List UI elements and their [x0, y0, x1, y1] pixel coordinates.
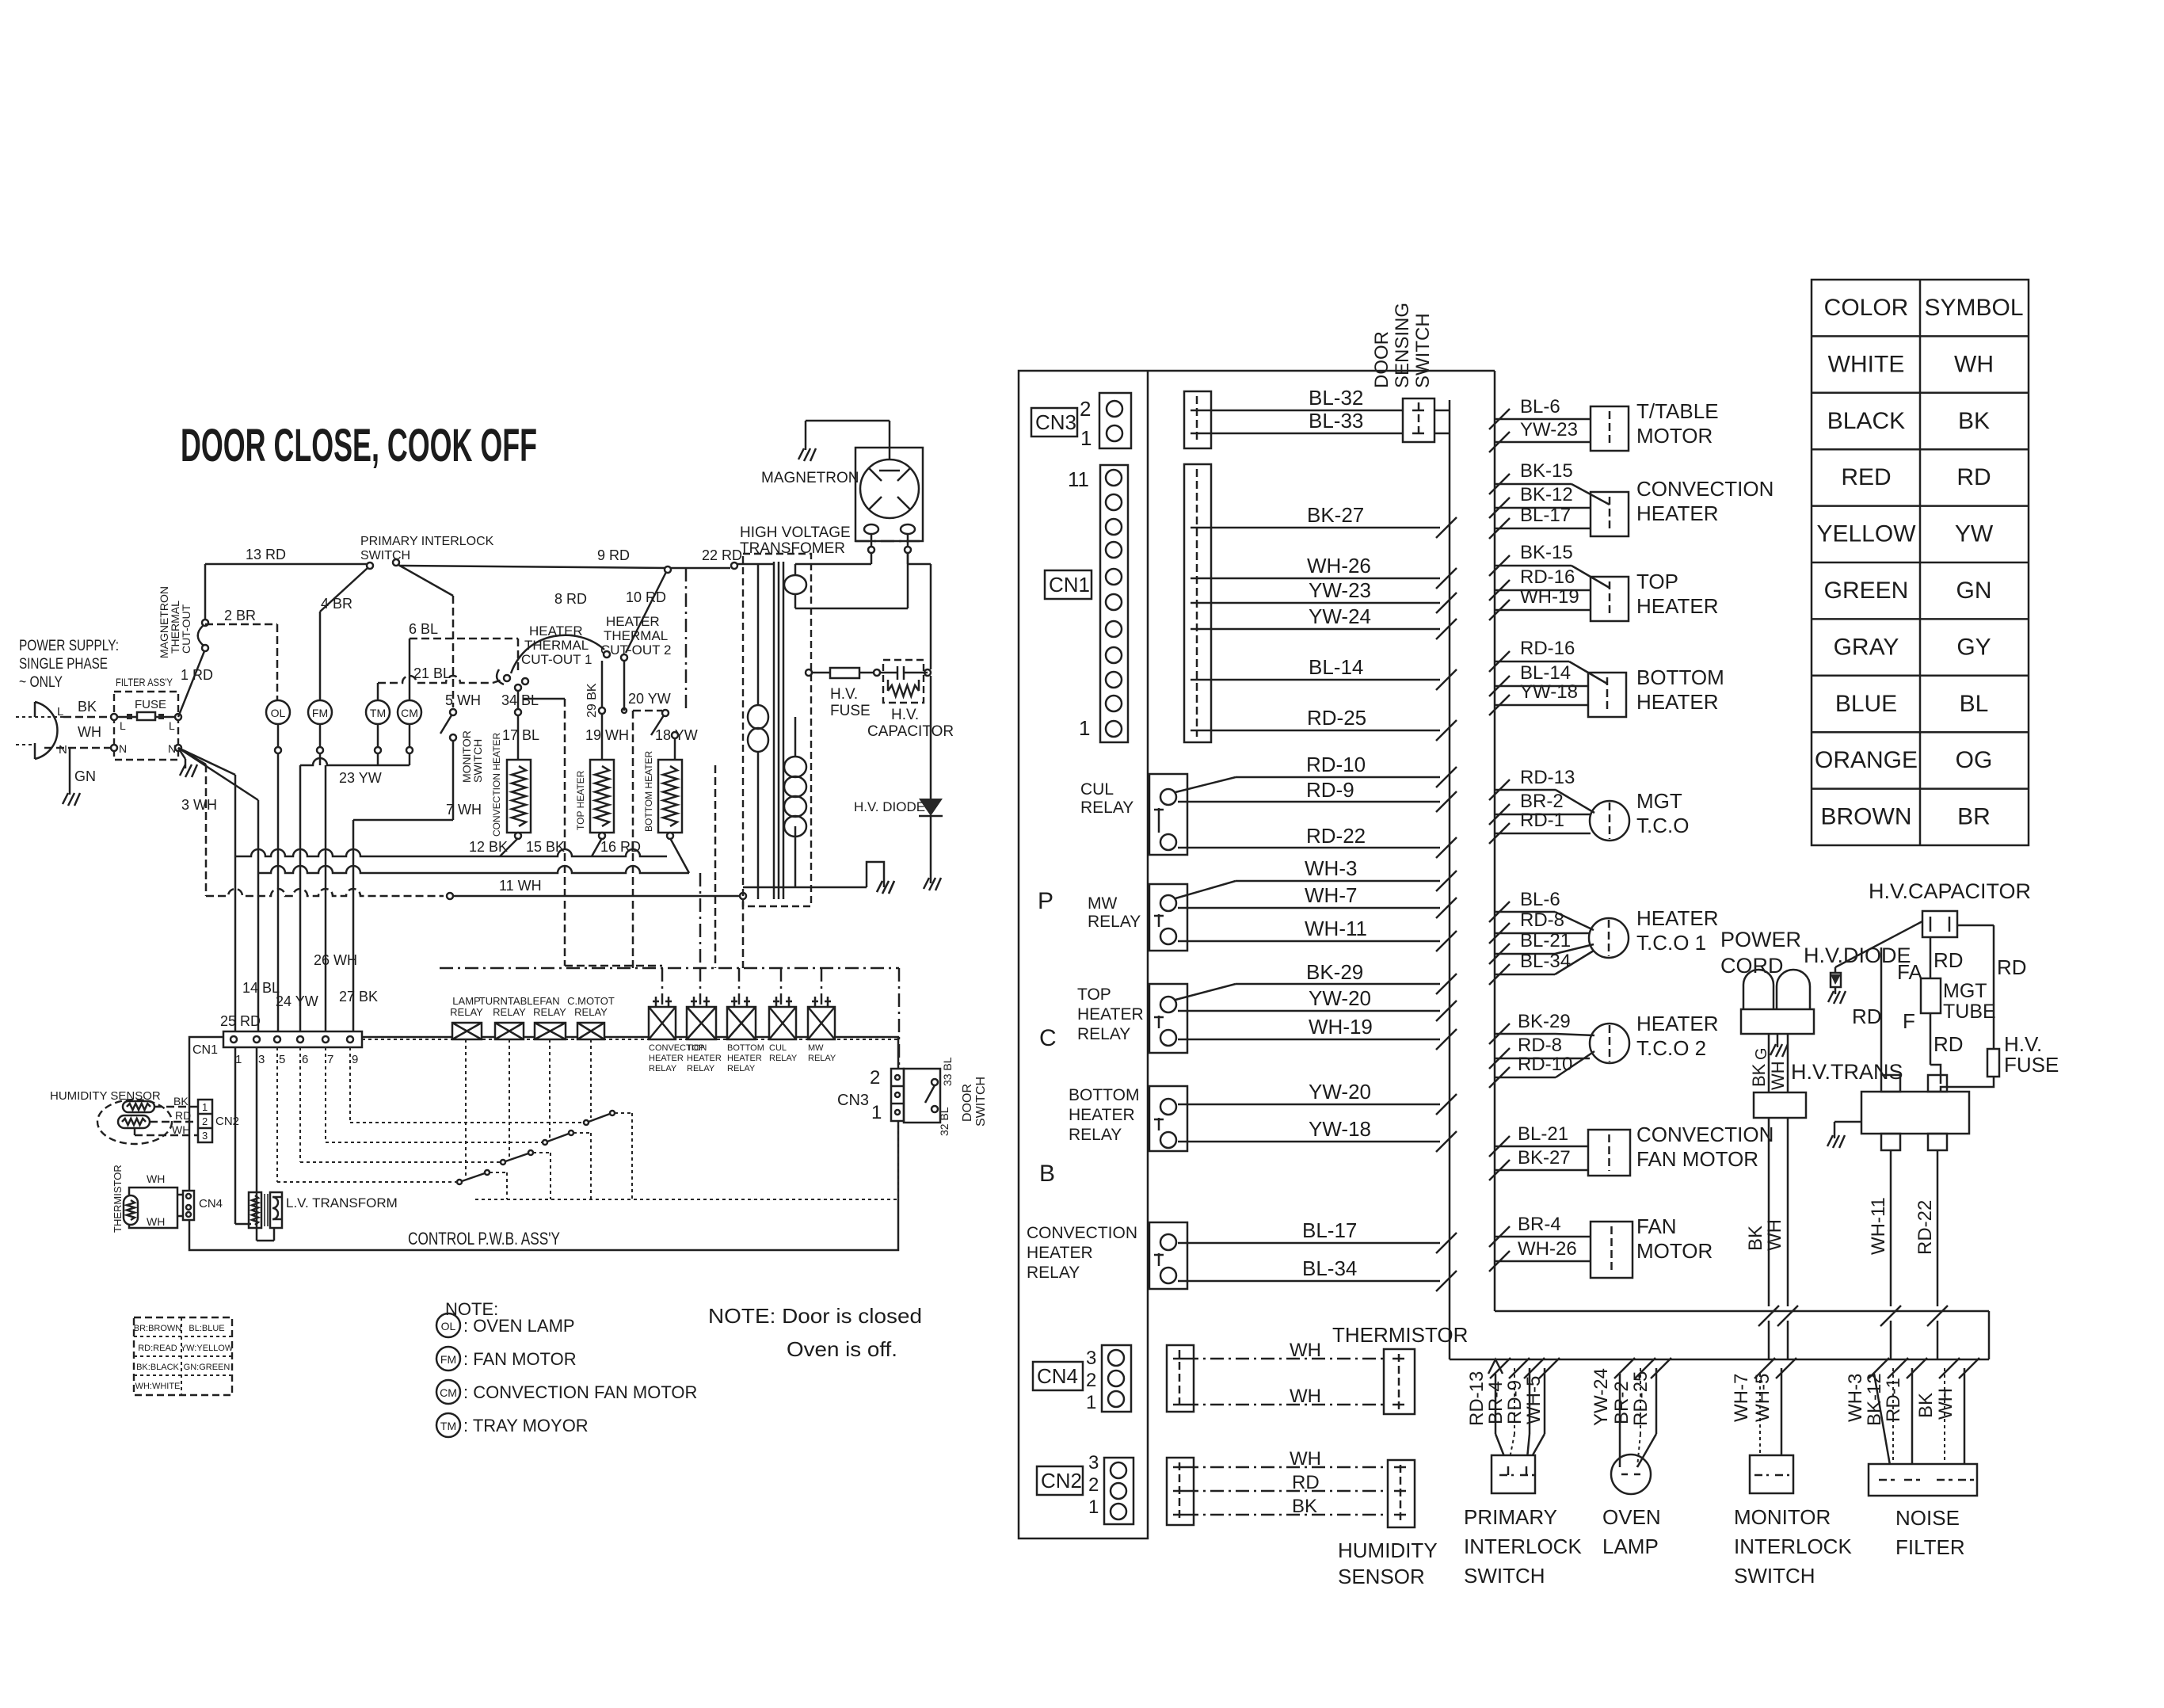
- svg-text:THERMAL: THERMAL: [604, 628, 668, 643]
- svg-text:CN3: CN3: [1035, 410, 1076, 434]
- svg-text:BK: BK: [173, 1095, 189, 1108]
- wire RD-13: [1489, 780, 1510, 800]
- svg-text:T.C.O 2: T.C.O 2: [1636, 1036, 1706, 1060]
- wire BK-27 b: [1489, 1160, 1510, 1180]
- svg-text:RD: RD: [1934, 948, 1964, 972]
- connector CN2 right: [1037, 1466, 1083, 1495]
- svg-text:H.V.: H.V.: [830, 686, 858, 703]
- wire RD-10: [1175, 777, 1236, 792]
- svg-text:RELAY: RELAY: [1088, 913, 1141, 931]
- svg-text:: OVEN LAMP: : OVEN LAMP: [463, 1316, 575, 1336]
- wire 6 BL: [409, 639, 411, 700]
- wire 7 WH: [452, 741, 455, 820]
- svg-text:BR-4: BR-4: [1518, 1214, 1561, 1235]
- wire BR-2: [1489, 804, 1510, 825]
- svg-text:SENSING: SENSING: [1392, 303, 1413, 388]
- svg-text:1: 1: [1086, 1392, 1096, 1413]
- svg-text:RELAY: RELAY: [533, 1006, 566, 1018]
- svg-text:RD-8: RD-8: [1518, 1035, 1562, 1056]
- wire BL-17: [1178, 1242, 1440, 1245]
- harness connector top: [1184, 391, 1211, 448]
- wire 5 WH: [452, 596, 455, 707]
- dash-dot drop x866: [685, 568, 688, 709]
- wire WH h: [1185, 1466, 1388, 1469]
- bottom heater R3: [658, 760, 682, 833]
- svg-text:~ ONLY: ~ ONLY: [19, 674, 63, 691]
- svg-text:CN1: CN1: [192, 1043, 218, 1057]
- svg-text:WH: WH: [1935, 1388, 1956, 1420]
- svg-text:3: 3: [202, 1130, 208, 1142]
- svg-text:WH: WH: [1764, 1219, 1785, 1251]
- primary interlock switch right: [1490, 1358, 1511, 1378]
- svg-text:BR:BROWN: BR:BROWN: [134, 1324, 182, 1333]
- convection fan motor comp: [1588, 1130, 1630, 1176]
- svg-text:WH-5: WH-5: [1523, 1376, 1545, 1424]
- fan motor FM: [308, 700, 332, 724]
- svg-text:YW:YELLOW: YW:YELLOW: [181, 1344, 234, 1353]
- crossover row 2: [258, 866, 689, 873]
- svg-text:1: 1: [202, 1101, 208, 1113]
- svg-text:YW-18: YW-18: [1520, 681, 1578, 703]
- humidity wires BK RD WH: [154, 1106, 198, 1108]
- svg-text:RD-10: RD-10: [1306, 753, 1366, 776]
- svg-text:FM: FM: [312, 707, 328, 719]
- branch to top heater: [592, 838, 602, 856]
- svg-text:9 RD: 9 RD: [597, 547, 630, 563]
- svg-text:RD-1: RD-1: [1520, 810, 1564, 831]
- svg-text:SWITCH: SWITCH: [471, 739, 484, 783]
- wire YW-20 b: [1178, 1104, 1440, 1106]
- wire RD-8: [1489, 923, 1510, 944]
- svg-text:BLUE: BLUE: [1835, 691, 1897, 717]
- connector CN3 right: [1031, 408, 1077, 437]
- svg-text:FILTER ASS'Y: FILTER ASS'Y: [116, 676, 173, 688]
- svg-text:WH-11: WH-11: [1305, 917, 1367, 940]
- svg-text:GRAY: GRAY: [1834, 634, 1899, 660]
- connector CN1 strip: [223, 1031, 362, 1047]
- svg-text:HEATER: HEATER: [727, 1054, 762, 1063]
- oven lamp right: [1614, 1358, 1635, 1378]
- svg-text:6 BL: 6 BL: [409, 621, 438, 637]
- svg-text:YW-24: YW-24: [1309, 604, 1371, 628]
- svg-text:RED: RED: [1841, 464, 1891, 490]
- svg-text:H.V.TRANS: H.V.TRANS: [1791, 1060, 1903, 1084]
- magnetron filament wires: [871, 553, 873, 564]
- filter ground: [178, 748, 185, 759]
- svg-text:BOTTOM HEATER: BOTTOM HEATER: [643, 750, 654, 832]
- svg-text:WH-3: WH-3: [1305, 856, 1357, 880]
- svg-text:BK: BK: [1958, 408, 1990, 434]
- svg-text:FAN MOTOR: FAN MOTOR: [1636, 1147, 1758, 1171]
- svg-text:HEATER: HEATER: [1027, 1244, 1093, 1262]
- svg-text:H.V.: H.V.: [891, 707, 919, 723]
- legend FM fan motor: [436, 1347, 460, 1371]
- convection heater relay box: [649, 1007, 676, 1039]
- wire magnetron to HV node: [908, 563, 931, 566]
- svg-text:WH-19: WH-19: [1520, 586, 1579, 608]
- svg-text:YELLOW: YELLOW: [1816, 521, 1916, 547]
- svg-text:BK-27: BK-27: [1518, 1147, 1571, 1169]
- power cord wires BK WH: [1768, 1034, 1770, 1092]
- svg-text:SYMBOL: SYMBOL: [1924, 295, 2023, 321]
- svg-text:BL-17: BL-17: [1302, 1218, 1357, 1242]
- svg-text:N: N: [119, 742, 127, 755]
- svg-text:RD: RD: [1956, 464, 1991, 490]
- svg-text:11: 11: [1068, 467, 1089, 491]
- wire YW-23 r: [1489, 432, 1510, 452]
- svg-text:BL-34: BL-34: [1520, 951, 1571, 972]
- svg-text:RD-25: RD-25: [1630, 1371, 1652, 1426]
- svg-text:THERMAL: THERMAL: [524, 638, 589, 653]
- wire 9 RD: [399, 566, 668, 568]
- svg-text:RD-22: RD-22: [1914, 1200, 1936, 1255]
- wire BK-12: [1489, 498, 1510, 518]
- control pwb assy box: [189, 1037, 898, 1250]
- svg-text:MOTOR: MOTOR: [1636, 1239, 1713, 1263]
- relay top pins: [655, 997, 657, 1007]
- svg-text:: TRAY MOYOR: : TRAY MOYOR: [463, 1416, 589, 1435]
- wire BK-29: [1175, 984, 1236, 1000]
- svg-text:CUT-OUT: CUT-OUT: [180, 604, 192, 654]
- hv transformer primary coil: [748, 705, 768, 729]
- svg-text:25 RD: 25 RD: [220, 1013, 261, 1029]
- svg-text:RD: RD: [1852, 1005, 1882, 1028]
- svg-text:BK: BK: [1915, 1393, 1937, 1418]
- humidity sensor right: [1167, 1458, 1194, 1525]
- svg-text:1 RD: 1 RD: [181, 667, 213, 683]
- svg-text:WH: WH: [1290, 1340, 1321, 1361]
- svg-text:DOOR CLOSE, COOK OFF: DOOR CLOSE, COOK OFF: [181, 420, 537, 471]
- svg-text:: CONVECTION FAN MOTOR: : CONVECTION FAN MOTOR: [463, 1382, 697, 1402]
- relay drop turntable: [509, 1039, 510, 1157]
- svg-text:WH: WH: [147, 1215, 165, 1228]
- hv trans ground: [1834, 1121, 1861, 1123]
- svg-text:HEATER: HEATER: [1069, 1106, 1135, 1124]
- svg-text:TOP: TOP: [687, 1043, 704, 1053]
- svg-text:G: G: [1753, 1047, 1770, 1060]
- wire BL-34 b: [1489, 964, 1510, 985]
- svg-text:15 BK: 15 BK: [526, 839, 565, 855]
- mw relay box: [808, 1007, 835, 1039]
- wire BL-34: [1178, 1280, 1440, 1283]
- svg-text:B: B: [1039, 1161, 1055, 1187]
- svg-text:HEATER: HEATER: [606, 614, 660, 629]
- wire L to filter: [63, 716, 114, 719]
- svg-text:TOP: TOP: [1077, 986, 1111, 1004]
- svg-text:SWITCH: SWITCH: [974, 1077, 988, 1127]
- svg-text:10 RD: 10 RD: [626, 589, 666, 605]
- svg-text:2: 2: [870, 1067, 880, 1088]
- svg-text:BL-6: BL-6: [1520, 396, 1560, 417]
- svg-text:2: 2: [202, 1115, 208, 1127]
- svg-text:POWER SUPPLY:: POWER SUPPLY:: [19, 638, 119, 654]
- svg-text:RELAY: RELAY: [450, 1006, 483, 1018]
- svg-text:BL-32: BL-32: [1309, 386, 1363, 410]
- fanout to pin verticals: [178, 748, 235, 775]
- wire BK-15 b: [1489, 555, 1510, 576]
- bottom heater relay box: [727, 1007, 756, 1039]
- svg-text:34 BL: 34 BL: [501, 692, 539, 708]
- ground GN: [69, 748, 71, 795]
- branch to convection heater: [500, 838, 518, 856]
- svg-text:TOP: TOP: [1636, 570, 1678, 593]
- wire RD-9: [1178, 801, 1440, 803]
- wire 29 BK: [601, 661, 604, 707]
- svg-text:GN: GN: [74, 768, 96, 784]
- svg-text:MGT: MGT: [1943, 980, 1987, 1002]
- svg-text:CN2: CN2: [1041, 1469, 1082, 1493]
- svg-text:YW-20: YW-20: [1309, 986, 1371, 1010]
- wire RD-8 b: [1489, 1048, 1510, 1069]
- svg-text:FUSE: FUSE: [2004, 1053, 2059, 1077]
- filter assy box: [114, 692, 178, 760]
- wire BK-15: [1489, 474, 1510, 494]
- svg-text:NOTE: Door is closed: NOTE: Door is closed: [708, 1304, 922, 1328]
- wire RD-22 r: [1937, 1150, 1939, 1306]
- wire WH-7: [1178, 907, 1440, 909]
- svg-text:BL-33: BL-33: [1309, 409, 1363, 433]
- svg-text:CM: CM: [401, 707, 418, 719]
- svg-text:RELAY: RELAY: [1080, 799, 1133, 817]
- svg-text:H.V.CAPACITOR: H.V.CAPACITOR: [1869, 879, 2031, 903]
- svg-text:T/TABLE: T/TABLE: [1636, 399, 1719, 423]
- svg-text:RD-13: RD-13: [1466, 1371, 1488, 1426]
- svg-text:17 BL: 17 BL: [502, 727, 539, 743]
- svg-text:CONVECTION: CONVECTION: [1636, 477, 1773, 501]
- relay drop cmotot: [590, 1039, 592, 1118]
- svg-text:YW-20: YW-20: [1309, 1080, 1371, 1104]
- svg-text:CN4: CN4: [1037, 1364, 1078, 1388]
- wire WH-19: [1178, 1039, 1440, 1041]
- wire 22RD into transformer: [743, 563, 774, 566]
- svg-text:2: 2: [1080, 397, 1091, 421]
- relay drop fan: [549, 1039, 551, 1138]
- convection heater relay right: [1149, 1222, 1187, 1289]
- svg-text:1: 1: [1079, 716, 1090, 740]
- svg-text:SENSOR: SENSOR: [1338, 1565, 1425, 1588]
- svg-text:12 BK: 12 BK: [469, 839, 508, 855]
- svg-text:C.MOTOT: C.MOTOT: [567, 995, 615, 1007]
- mgt tco: [1590, 801, 1629, 841]
- wire WH-11 r: [1890, 1150, 1892, 1306]
- svg-text:24 YW: 24 YW: [276, 993, 318, 1009]
- svg-text:WH: WH: [147, 1172, 165, 1185]
- svg-text:RD:READ: RD:READ: [138, 1344, 177, 1353]
- wire 21 BL: [377, 683, 379, 700]
- svg-text:WH: WH: [1954, 351, 1994, 377]
- svg-text:WH: WH: [1768, 1061, 1788, 1090]
- svg-text:BL-34: BL-34: [1302, 1256, 1357, 1280]
- wire BK-27: [1202, 527, 1440, 529]
- svg-text:RELAY: RELAY: [1077, 1025, 1130, 1043]
- svg-text:INTERLOCK: INTERLOCK: [1734, 1535, 1852, 1558]
- svg-text:YW-23: YW-23: [1520, 419, 1578, 440]
- dash-dot bus y1222: [440, 967, 899, 970]
- wire YW-23: [1202, 602, 1440, 604]
- svg-text:11 WH: 11 WH: [499, 878, 542, 894]
- svg-text:RELAY: RELAY: [574, 1006, 608, 1018]
- mw relay right: [1149, 884, 1187, 951]
- svg-text:NOISE: NOISE: [1895, 1506, 1960, 1530]
- svg-text:RD: RD: [1292, 1472, 1320, 1493]
- wire BL-17 r: [1489, 518, 1510, 539]
- svg-text:7: 7: [327, 1053, 333, 1066]
- wire YW-18: [1178, 1141, 1440, 1143]
- svg-text:3: 3: [258, 1053, 265, 1066]
- svg-text:RD-10: RD-10: [1518, 1054, 1572, 1075]
- svg-text:BK-12: BK-12: [1520, 484, 1573, 505]
- svg-text:Oven is off.: Oven is off.: [787, 1337, 897, 1361]
- ground near transformer: [877, 881, 894, 894]
- monitor interlock switch right: [1754, 1358, 1775, 1378]
- fan motor comp: [1591, 1222, 1633, 1278]
- top heater R2: [590, 760, 614, 833]
- svg-text:RELAY: RELAY: [493, 1006, 526, 1018]
- convection heater comp: [1591, 492, 1629, 536]
- svg-text:RD-16: RD-16: [1520, 638, 1575, 659]
- dashed drop x799: [623, 661, 626, 711]
- cul relay box: [769, 1007, 796, 1039]
- bottom heater switch: [662, 710, 669, 716]
- svg-text:MONITOR: MONITOR: [1734, 1505, 1831, 1529]
- bus top link: [1148, 370, 1495, 372]
- wire BL-14 r: [1489, 676, 1510, 696]
- svg-text:BR-4: BR-4: [1485, 1381, 1507, 1424]
- contact lamp: [457, 1180, 462, 1184]
- bottom heater relay right: [1149, 1086, 1187, 1151]
- svg-text:29 BK: 29 BK: [585, 683, 599, 718]
- power plug: [35, 702, 57, 759]
- svg-text:27 BK: 27 BK: [339, 989, 378, 1005]
- svg-text:CN4: CN4: [199, 1197, 223, 1210]
- svg-text:20 YW: 20 YW: [628, 691, 671, 707]
- svg-text:RD: RD: [175, 1109, 191, 1122]
- wire below TM: [375, 747, 381, 753]
- svg-text:L: L: [57, 705, 63, 719]
- wire below OL: [275, 747, 281, 753]
- svg-text:RD-9: RD-9: [1504, 1380, 1526, 1424]
- svg-text:BL-14: BL-14: [1520, 662, 1571, 684]
- svg-text:16 RD: 16 RD: [600, 839, 641, 855]
- wire YW-18 r: [1489, 695, 1510, 715]
- contact turntable: [501, 1160, 505, 1165]
- svg-text:L: L: [169, 719, 175, 732]
- svg-text:3 WH: 3 WH: [181, 797, 217, 813]
- hv transformer secondary coil: [784, 757, 806, 777]
- svg-text:BK: BK: [78, 699, 97, 715]
- svg-text:WH: WH: [78, 724, 101, 740]
- svg-text:TM: TM: [440, 1420, 456, 1432]
- svg-text:OL: OL: [441, 1320, 456, 1332]
- wire 23 YW: [406, 747, 413, 753]
- svg-text:F: F: [1903, 1009, 1915, 1033]
- svg-text:FA: FA: [1897, 960, 1922, 984]
- heater tco 2: [1590, 1024, 1629, 1063]
- svg-text:POWER: POWER: [1720, 928, 1801, 951]
- svg-text:33 BL: 33 BL: [941, 1057, 954, 1086]
- svg-text:INTERLOCK: INTERLOCK: [1464, 1535, 1582, 1558]
- convection heater R1: [507, 760, 531, 833]
- svg-text:MW: MW: [808, 1043, 824, 1053]
- svg-text:RELAY: RELAY: [727, 1064, 756, 1073]
- svg-text:YW-18: YW-18: [1309, 1117, 1371, 1141]
- svg-text:BL-6: BL-6: [1520, 889, 1560, 910]
- svg-text:HIGH VOLTAGE: HIGH VOLTAGE: [740, 524, 851, 541]
- svg-text:COLOR: COLOR: [1824, 295, 1909, 321]
- svg-text:CONVECTION: CONVECTION: [1636, 1123, 1773, 1146]
- bus line left x1830: [1449, 400, 1451, 1359]
- svg-text:SWITCH: SWITCH: [1734, 1564, 1815, 1588]
- svg-text:FILTER: FILTER: [1895, 1535, 1965, 1559]
- bottom heater comp: [1588, 673, 1626, 717]
- wire 27 BK vertical: [352, 820, 355, 1031]
- svg-text:4 BR: 4 BR: [321, 596, 352, 612]
- svg-text:BK-27: BK-27: [1307, 503, 1364, 527]
- svg-text:YW-23: YW-23: [1309, 578, 1371, 602]
- wire BL-33: [1202, 433, 1403, 435]
- lamp relay: [452, 1023, 482, 1039]
- svg-text:BK-15: BK-15: [1520, 542, 1573, 563]
- svg-text:GREEN: GREEN: [1824, 578, 1909, 604]
- svg-text:MOTOR: MOTOR: [1636, 424, 1713, 448]
- interlock lever: [398, 565, 453, 596]
- svg-text:MAGNETRON: MAGNETRON: [761, 470, 859, 486]
- svg-text:TUBE: TUBE: [1943, 1001, 1996, 1023]
- mgt tube: [1921, 978, 1941, 1013]
- svg-text:HEATER: HEATER: [1636, 501, 1719, 525]
- svg-text:N: N: [59, 743, 67, 757]
- hv node to diode: [924, 669, 931, 676]
- wire 2 BR: [205, 623, 277, 626]
- svg-text:H.V. DIODE: H.V. DIODE: [854, 799, 925, 814]
- svg-text:BL:BLUE: BL:BLUE: [189, 1324, 224, 1333]
- svg-text:BR-2: BR-2: [1611, 1381, 1633, 1424]
- svg-text:YW: YW: [1955, 521, 1994, 547]
- wire RD h: [1185, 1490, 1388, 1493]
- svg-text:C: C: [1039, 1025, 1057, 1051]
- svg-text:HEATER: HEATER: [1636, 594, 1719, 618]
- svg-text:TOP HEATER: TOP HEATER: [575, 770, 586, 830]
- svg-text:CUT-OUT 1: CUT-OUT 1: [521, 652, 592, 667]
- svg-text:RELAY: RELAY: [769, 1054, 798, 1063]
- svg-text:1: 1: [1080, 426, 1092, 450]
- svg-text:14 BL: 14 BL: [242, 980, 280, 996]
- svg-text:RD-25: RD-25: [1307, 706, 1366, 730]
- power cord ground G: [1777, 1034, 1779, 1047]
- svg-text:L.V. TRANSFORM: L.V. TRANSFORM: [286, 1195, 398, 1210]
- crossover row 1 / 12 BK 15 BK 16 RD: [235, 849, 667, 856]
- svg-text:RD: RD: [1997, 955, 2027, 979]
- svg-text:BROWN: BROWN: [1821, 804, 1912, 830]
- svg-text:CM: CM: [440, 1386, 457, 1399]
- svg-text:RD: RD: [1934, 1032, 1964, 1056]
- svg-text:GY: GY: [1956, 634, 1991, 660]
- wire WH t2: [1185, 1404, 1384, 1406]
- heater tco 1: [1589, 918, 1629, 958]
- svg-text:HEATER: HEATER: [687, 1054, 722, 1063]
- connector CN2 left: [198, 1100, 212, 1142]
- svg-text:RD-1: RD-1: [1883, 1378, 1904, 1422]
- wire BL-6 b: [1489, 902, 1510, 922]
- svg-text:DOOR: DOOR: [1371, 331, 1393, 388]
- svg-text:CUL: CUL: [769, 1043, 787, 1053]
- wire N to filter: [44, 747, 114, 749]
- svg-text:2: 2: [1088, 1474, 1099, 1496]
- svg-text:CUT-OUT 2: CUT-OUT 2: [600, 642, 671, 658]
- cul relay right: [1149, 774, 1187, 855]
- wire RD-16 b: [1489, 651, 1510, 672]
- svg-text:RD-22: RD-22: [1306, 824, 1366, 848]
